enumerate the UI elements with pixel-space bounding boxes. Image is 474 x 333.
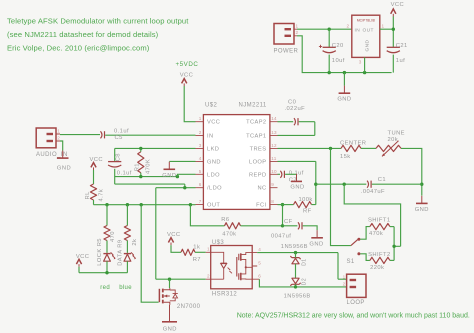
wire R1 leads [140, 148, 142, 176]
svg-text:20k: 20k [388, 137, 399, 143]
wire LED to VCC line at x=107 [106, 261, 108, 273]
ground symbol MOSFET [169, 314, 171, 322]
wire VCC arrow to rail [78, 267, 80, 273]
svg-text:5: 5 [199, 169, 202, 174]
wire shift right vertical [394, 227, 401, 261]
svg-text:TRES: TRES [250, 146, 267, 152]
diode D1 zener [290, 256, 300, 259]
svg-text:4.7k: 4.7k [98, 189, 104, 202]
connector AUDIO_IN pin stubs [56, 134, 60, 141]
resistor CENTER 15k [341, 145, 361, 151]
svg-text:.0047uF: .0047uF [361, 189, 385, 195]
svg-text:R7: R7 [193, 257, 201, 263]
svg-text:4: 4 [258, 247, 261, 252]
wire OUT to resistor at x=107 [106, 205, 108, 226]
svg-text:GND: GND [162, 173, 176, 179]
svg-text:RL: RL [85, 191, 91, 200]
resistor RL 4.7k [90, 184, 96, 200]
wire S1 common from TRES net [331, 148, 351, 245]
svg-text:11: 11 [271, 156, 276, 161]
supply symbol VCC top right [391, 9, 396, 14]
svg-text:OUT: OUT [363, 28, 374, 34]
supply symbol VCC above IC [182, 79, 187, 84]
wire TCAP2 pin14 to C0 [278, 121, 294, 123]
wire rail2 to IC pin6 /LDO [115, 184, 185, 188]
junction shift branch on C1 line [343, 183, 346, 186]
switch S1 [351, 240, 358, 246]
svg-text:0.1uf: 0.1uf [117, 171, 132, 177]
svg-text:GND: GND [337, 97, 351, 103]
svg-text:IN: IN [207, 133, 214, 139]
wire R7 to opto pin1 [195, 251, 206, 253]
svg-text:1: 1 [207, 247, 210, 252]
wire OUT net to gate [141, 205, 158, 303]
wire IC pin8 FCI to RF [278, 204, 294, 206]
opto internal output FETs [237, 254, 239, 280]
wire POWER pin1 to regulator IN [297, 28, 352, 30]
capacitor C5 [101, 131, 103, 138]
svg-text:C5: C5 [115, 135, 123, 141]
svg-text:R1: R1 [134, 163, 140, 171]
connector opto pin stubs left [206, 252, 211, 279]
junction zener D2 bottom [294, 285, 297, 288]
resistor SHIFT2 220k [370, 257, 390, 263]
op-amp U$2 NJM2211 body [203, 115, 270, 210]
svg-text:U$2: U$2 [205, 103, 218, 109]
junction FCI node [281, 203, 284, 206]
connector POWER pin stubs [294, 29, 297, 36]
junction C20 bottom on rail [328, 71, 331, 74]
wire AUDIO_IN pin1 to C5 [60, 134, 100, 136]
resistor R5 470 [104, 226, 110, 241]
svg-text:3: 3 [199, 143, 202, 148]
svg-text:GND: GND [207, 159, 221, 165]
wire between zeners [295, 253, 297, 279]
wire RL bottom to OUT net [93, 200, 95, 205]
svg-text:R6: R6 [221, 217, 229, 223]
wire resistor to LED at x=127.4 [126, 241, 128, 253]
wire C5 to IC pin 2 IN [105, 134, 195, 136]
svg-text:REPD: REPD [249, 172, 266, 178]
LED blue [124, 253, 131, 255]
svg-text:2: 2 [296, 30, 299, 35]
wire IC pin10 REPD to C7 [278, 173, 281, 175]
svg-text:4: 4 [199, 156, 202, 161]
wire C8 bottom down [114, 169, 116, 184]
ground symbol C7 [296, 174, 298, 182]
svg-text:10uf: 10uf [332, 58, 345, 64]
wire VCC to R7 [171, 245, 181, 252]
wire pin6 net down to opto pin2 [156, 188, 206, 280]
wire LED to VCC line at x=127.4 [126, 261, 128, 273]
wire S1 throw2 to SHIFT2 [360, 254, 370, 261]
junction pin6 net [183, 186, 186, 189]
capacitor CF [298, 222, 300, 229]
resistor SHIFT1 470k [370, 224, 390, 230]
svg-text:3: 3 [359, 60, 362, 65]
svg-text:GND: GND [309, 242, 323, 248]
wire pin6 horizontal [156, 187, 196, 189]
capacitor C0 [294, 118, 296, 125]
svg-text:LOOP: LOOP [249, 159, 267, 165]
junction GND stub on rail [343, 71, 346, 74]
wire IC pin3 LKD net [115, 147, 196, 149]
wire C7 to ground [285, 173, 296, 175]
regulator U$1 body [352, 15, 380, 57]
svg-text:red: red [100, 285, 110, 291]
svg-text:2k: 2k [132, 239, 138, 246]
svg-text:2: 2 [343, 281, 346, 286]
junction LED column 1 [105, 203, 108, 206]
svg-text:7: 7 [199, 199, 202, 204]
svg-text:TCAP1: TCAP1 [246, 133, 266, 139]
svg-text:VCC: VCC [90, 157, 104, 163]
svg-text:SHIFT2: SHIFT2 [368, 252, 391, 258]
ground symbol IC pin4 [168, 162, 170, 170]
svg-text:470K: 470K [146, 159, 152, 174]
svg-text:.022uF: .022uF [285, 106, 306, 112]
svg-text:VCC: VCC [207, 120, 220, 126]
wire IC pin12 TRES to CENTER [278, 147, 342, 149]
wire opto pin6 to LOOP pin2 [259, 279, 346, 287]
junction gate branch [140, 203, 143, 206]
svg-text:VCC: VCC [180, 73, 194, 79]
wire CENTER to TUNE [361, 147, 376, 149]
svg-text:LOOP: LOOP [347, 300, 365, 306]
wire C20 top from IN net [328, 29, 330, 47]
IC U$2 left pin stubs [196, 122, 204, 205]
svg-text:DATA R9: DATA R9 [118, 240, 124, 266]
svg-text:6: 6 [258, 274, 261, 279]
supply symbol VCC led rail [76, 259, 81, 264]
svg-text:NJM2211: NJM2211 [239, 103, 267, 109]
transistor Q1 2N7000 [158, 289, 160, 302]
svg-text:D1: D1 [301, 259, 307, 266]
wire C1 node down to shift resistors [344, 184, 400, 246]
wire AUDIO_IN pin2 to ground [60, 141, 63, 151]
svg-text:TUNE: TUNE [388, 131, 405, 137]
svg-text:6: 6 [199, 182, 202, 187]
wire C20 bottom to rail [328, 55, 330, 73]
wire OUT net horizontal [94, 204, 196, 206]
svg-text:13: 13 [271, 130, 277, 135]
wire CF to ground [303, 226, 317, 230]
wire C0 to TCAP1 pin13 [278, 122, 315, 136]
svg-text:0047uf: 0047uf [271, 234, 291, 240]
wire rail to ground symbol [343, 73, 345, 86]
svg-text:0.1uf: 0.1uf [114, 128, 129, 134]
svg-text:1: 1 [199, 116, 202, 121]
resistor R1 470K [138, 152, 144, 173]
wire opto pin4 to LOOP pin1 [257, 253, 346, 280]
svg-text:470: 470 [110, 231, 116, 242]
wire POWER pin2 to ground rail [297, 36, 392, 73]
junction LOOP net to C1 line [314, 183, 317, 186]
connector X3 LOOP [347, 274, 366, 297]
wire drain up [169, 279, 171, 288]
svg-text:C1: C1 [378, 177, 386, 183]
wire zener bottom to loop pin2 line [295, 284, 297, 287]
ground symbol audio [62, 151, 64, 159]
svg-text:GND: GND [415, 207, 429, 213]
wire LOOP net to C1 [316, 183, 367, 185]
svg-text:2: 2 [199, 130, 202, 135]
capacitor C8 [108, 161, 121, 163]
svg-text:9: 9 [271, 182, 274, 187]
wire regulator OUT to VCC and C21 [380, 16, 394, 47]
capacitor C21 [387, 46, 400, 48]
wire source to ground [169, 305, 171, 322]
wire regulator GND pin to rail [364, 57, 366, 72]
ground symbol CF [316, 230, 318, 238]
wire SHIFT1 right [390, 226, 394, 228]
resistor R6 470k [225, 223, 241, 229]
svg-text:TCAP2: TCAP2 [246, 120, 266, 126]
svg-text:470k: 470k [369, 231, 383, 237]
resistor RF 100k [294, 202, 312, 208]
svg-text:1: 1 [382, 23, 385, 28]
junction OUT node [392, 28, 395, 31]
svg-text:1uf: 1uf [396, 58, 405, 64]
svg-text:C7: C7 [289, 177, 297, 183]
wire rail to IC pin5 LDO [177, 174, 195, 176]
svg-text:GND: GND [57, 165, 71, 171]
IC U$2 right pin stubs [270, 122, 278, 205]
svg-text:100k: 100k [299, 197, 313, 203]
wire RF to LOOP net [312, 161, 316, 204]
capacitor C1 [367, 181, 369, 188]
junction CF node [281, 224, 284, 227]
svg-text:5: 5 [258, 260, 261, 265]
svg-text:FCI: FCI [256, 203, 266, 209]
svg-text:C0: C0 [288, 100, 296, 106]
svg-text:/LDO: /LDO [207, 186, 222, 192]
junction C20 top on IN net [328, 28, 331, 31]
svg-text:MC/P78L08: MC/P78L08 [357, 19, 375, 23]
wire OUT to resistor at x=127.4 [126, 205, 128, 226]
svg-text:1: 1 [343, 274, 346, 279]
wire SHIFT2 right [390, 259, 394, 261]
junction shift mid [392, 245, 395, 248]
svg-text:SHIFT1: SHIFT1 [368, 217, 391, 223]
junction TUNE/C1/GND node [420, 183, 423, 186]
wire resistor to LED at x=107 [106, 241, 108, 253]
svg-text:1: 1 [296, 24, 299, 29]
svg-text:S1: S1 [347, 259, 355, 265]
LED red [103, 253, 110, 255]
wire IC pin11 LOOP [278, 160, 316, 162]
svg-text:220k: 220k [370, 265, 384, 271]
connector opto pin stubs right [252, 253, 259, 280]
capacitor C20 polarized [323, 46, 336, 48]
junction R6 branch [189, 203, 192, 206]
connector X2 POWER [274, 24, 294, 45]
svg-text:RF: RF [303, 208, 312, 214]
svg-text:IN: IN [355, 28, 361, 34]
wire C21 bottom to rail [392, 55, 394, 73]
supply symbol VCC above RL [91, 163, 96, 168]
svg-text:GND: GND [364, 39, 370, 51]
junction MOSFET drain [168, 278, 171, 281]
svg-text:1N5956B: 1N5956B [281, 244, 308, 250]
svg-text:14: 14 [271, 116, 277, 121]
wire OUT to R6 [190, 205, 224, 226]
wire VCC to RL [93, 170, 95, 184]
potentiometer TUNE 20k [376, 145, 401, 151]
junction R1 top [139, 147, 142, 150]
svg-text:C8: C8 [116, 153, 122, 161]
svg-text:POWER: POWER [274, 49, 299, 55]
svg-text:VCC: VCC [76, 254, 90, 260]
ground symbol right [421, 196, 423, 204]
connector X1 AUDIO_IN [36, 128, 56, 148]
junction LED rail [105, 271, 108, 274]
svg-text:2: 2 [207, 274, 210, 279]
svg-text:15k: 15k [340, 154, 351, 160]
ground symbol power supply [343, 86, 345, 94]
svg-text:2: 2 [347, 23, 350, 28]
junction S1 branch [329, 147, 332, 150]
wire R6 to FCI vertical [241, 205, 283, 226]
junction R1 bottom [139, 175, 142, 178]
wire CF branch [283, 225, 298, 227]
svg-text:C21: C21 [396, 43, 408, 49]
svg-text:1k: 1k [193, 245, 200, 251]
svg-text:LKD: LKD [207, 146, 219, 152]
svg-text:1N5956B: 1N5956B [284, 294, 311, 300]
svg-text:Eric Volpe, Dec. 2010 (eric@li: Eric Volpe, Dec. 2010 (eric@limpoc.com) [7, 44, 150, 53]
svg-text:Teletype AFSK Demodulator with: Teletype AFSK Demodulator with current l… [7, 17, 189, 26]
svg-text:Note: AQV257/HSR312 are very s: Note: AQV257/HSR312 are very slow, and w… [237, 313, 470, 320]
svg-text:HSR312: HSR312 [212, 292, 237, 298]
wire VCC to IC pin 1 [184, 86, 195, 122]
wire IC pin4 to ground [169, 160, 195, 162]
resistor R9 2k [124, 226, 130, 241]
junction regulator GND on rail [363, 71, 366, 74]
svg-text:1: 1 [57, 129, 60, 134]
svg-text:8: 8 [271, 199, 274, 204]
opto-relay U$3 HSR312 body [211, 246, 253, 289]
wire LED cathode rail [79, 272, 127, 274]
svg-text:470k: 470k [222, 232, 236, 238]
svg-text:VCC: VCC [167, 232, 181, 238]
junction LED column 2 [126, 203, 129, 206]
svg-text:2N7000: 2N7000 [177, 304, 201, 310]
svg-text:12: 12 [271, 143, 277, 148]
svg-text:GND: GND [163, 327, 177, 333]
wire S1 throw1 to SHIFT1 [360, 227, 370, 240]
svg-text:LDO: LDO [207, 172, 220, 178]
capacitor C7 [280, 171, 282, 178]
junction zener D1 top [294, 251, 297, 254]
wire lower rail C8 R1 pin5 [115, 176, 178, 178]
svg-text:LOCK R5: LOCK R5 [97, 238, 103, 266]
svg-text:VCC: VCC [391, 2, 405, 8]
opto internal LED [211, 252, 224, 279]
svg-text:NC: NC [257, 186, 266, 192]
svg-text:10: 10 [271, 169, 277, 174]
wire C1 to TUNE node [372, 183, 422, 185]
svg-text:+5VDC: +5VDC [176, 61, 199, 68]
svg-text:D2: D2 [301, 278, 307, 285]
svg-text:OUT: OUT [207, 203, 220, 209]
resistor R7 1k [181, 249, 195, 255]
svg-text:(see NJM2211 datasheet for dem: (see NJM2211 datasheet for demod details… [7, 30, 159, 39]
svg-text:blue: blue [119, 285, 132, 291]
svg-text:CENTER: CENTER [340, 140, 366, 146]
junction pin5 tap [176, 175, 179, 178]
supply symbol VCC opto [168, 238, 173, 243]
svg-text:GND: GND [290, 184, 304, 190]
svg-text:C20: C20 [332, 43, 344, 49]
svg-text:CF: CF [284, 219, 293, 225]
wire TUNE to C1 node and ground [401, 148, 422, 195]
svg-text:2: 2 [57, 136, 60, 141]
wire LKD down to C8 [114, 148, 116, 161]
diode D2 zener [292, 278, 299, 284]
